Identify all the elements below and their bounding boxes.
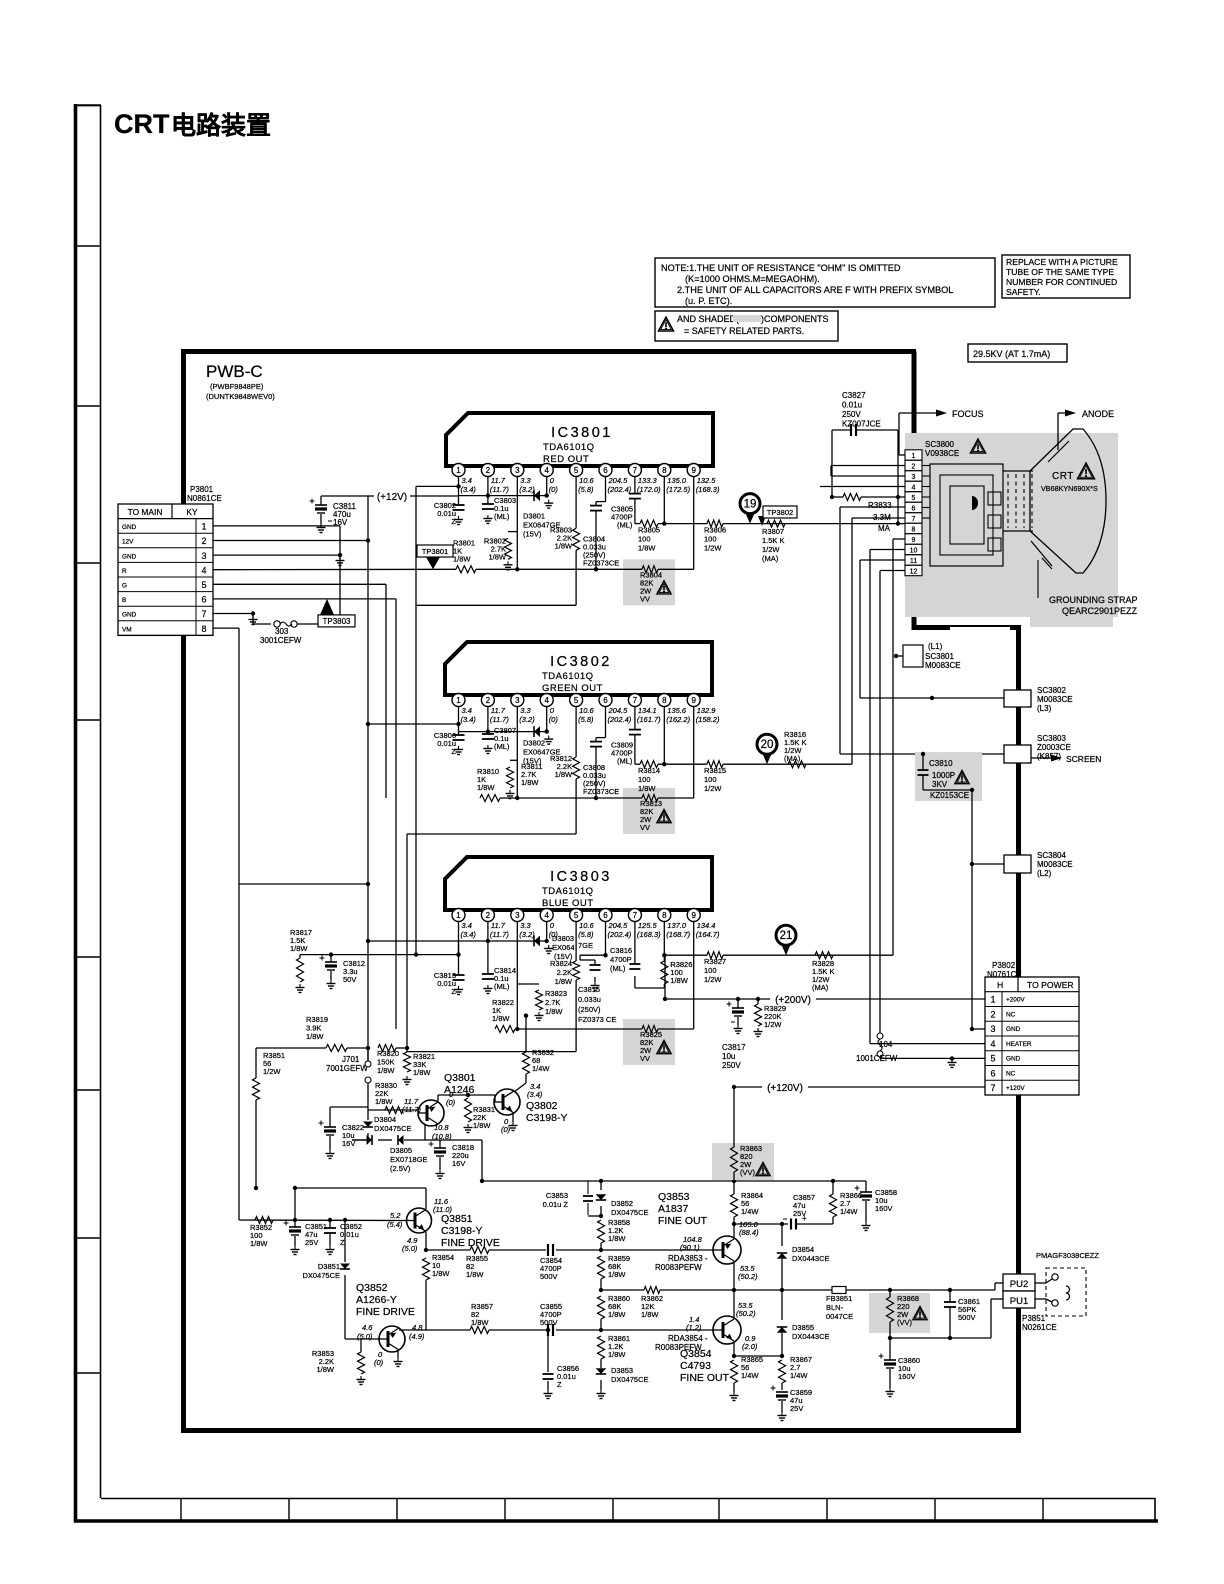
svg-text:(VV): (VV) xyxy=(740,1168,756,1177)
resistor R3860 68K xyxy=(598,1296,605,1319)
svg-text:MA: MA xyxy=(878,524,891,533)
capacitor C3810 1000P 3KV shaded xyxy=(915,752,982,801)
resistor R3859 68K xyxy=(598,1256,605,1279)
svg-text:(K=1000 OHMS.M=MEGAOHM).: (K=1000 OHMS.M=MEGAOHM). xyxy=(685,274,820,284)
svg-text:133.3: 133.3 xyxy=(638,476,658,485)
IC3802 pin 2 xyxy=(487,694,489,696)
svg-text:PWB-C: PWB-C xyxy=(206,362,263,381)
IC3803 pin 3 xyxy=(516,909,518,911)
resistor R3867 2.7 1/4W xyxy=(779,1360,786,1383)
jumper 303 3001CEFW xyxy=(252,614,254,625)
IC3802 pin 6 xyxy=(605,694,607,696)
svg-text:204.5: 204.5 xyxy=(608,921,629,930)
svg-text:NC: NC xyxy=(1006,1070,1016,1077)
red output wire to CRT xyxy=(723,523,905,525)
svg-text:1/8W: 1/8W xyxy=(377,1066,395,1075)
svg-text:4700P: 4700P xyxy=(610,955,632,964)
svg-text:NUMBER FOR CONTINUED: NUMBER FOR CONTINUED xyxy=(1006,277,1117,287)
svg-text:134.4: 134.4 xyxy=(697,921,716,930)
svg-text:11: 11 xyxy=(910,558,917,565)
CRT electron gun structure xyxy=(930,464,1003,566)
svg-text:PMAGF3038CEZZ: PMAGF3038CEZZ xyxy=(1036,1251,1099,1260)
svg-text:1/8W: 1/8W xyxy=(641,1310,659,1319)
capacitor C3861 56PK 500V xyxy=(949,1290,951,1302)
svg-text:4: 4 xyxy=(544,696,549,705)
svg-text:2: 2 xyxy=(486,696,491,705)
resistor R3865 56 1/4W xyxy=(731,1360,738,1383)
resistor R3861 1.2K xyxy=(598,1336,605,1359)
svg-text:7: 7 xyxy=(201,609,206,619)
svg-text:(202.4): (202.4) xyxy=(608,930,632,939)
transistor Q3852 A1266-Y FINE DRIVE xyxy=(379,1326,405,1352)
svg-text:GROUNDING STRAP: GROUNDING STRAP xyxy=(1049,595,1138,605)
svg-text:1/4W: 1/4W xyxy=(790,1371,808,1380)
svg-text:BLN-: BLN- xyxy=(826,1303,844,1312)
svg-text:4: 4 xyxy=(544,911,549,920)
resistor R3811 2.7K xyxy=(510,759,517,761)
transistor Q3851 C3198-Y FINE DRIVE xyxy=(407,1208,432,1233)
svg-text:(L3): (L3) xyxy=(1037,704,1052,713)
svg-text:IC3802: IC3802 xyxy=(550,654,612,670)
svg-text:11.7: 11.7 xyxy=(491,706,506,715)
test point flag TP3802 xyxy=(758,516,766,526)
+12V rail IC3802 xyxy=(459,731,547,733)
svg-text:2.7K: 2.7K xyxy=(545,998,560,1007)
svg-text:C3198-Y: C3198-Y xyxy=(526,1112,567,1124)
svg-text:(3.4): (3.4) xyxy=(461,930,477,939)
capacitor on pin7 IC3803 xyxy=(634,922,636,965)
svg-text:1/8W: 1/8W xyxy=(306,1032,324,1041)
svg-text:SC3803: SC3803 xyxy=(1037,734,1066,743)
29.5KV box xyxy=(968,344,1067,362)
feedback shade R3813 xyxy=(623,788,675,834)
svg-text:500V: 500V xyxy=(540,1318,558,1327)
svg-text:CRT: CRT xyxy=(114,109,170,139)
resistor R3863 820 2W shaded xyxy=(712,1143,774,1180)
svg-text:1/8W: 1/8W xyxy=(638,544,656,553)
capacitor C3805 4700P on pin7 xyxy=(634,477,636,494)
svg-text:Q3801: Q3801 xyxy=(444,1072,476,1084)
svg-text:P3802: P3802 xyxy=(992,961,1016,970)
svg-text:(88.4): (88.4) xyxy=(739,1228,759,1237)
svg-text:A1266-Y: A1266-Y xyxy=(356,1294,397,1306)
svg-text:TUBE OF THE SAME TYPE: TUBE OF THE SAME TYPE xyxy=(1006,267,1114,277)
svg-text:204.5: 204.5 xyxy=(608,476,629,485)
capacitor C3817 10u 250V xyxy=(737,999,739,1008)
svg-text:6: 6 xyxy=(201,595,206,605)
svg-text:R3806: R3806 xyxy=(704,526,726,535)
svg-text:100: 100 xyxy=(704,966,717,975)
svg-text:21: 21 xyxy=(780,930,793,942)
svg-text:(158.2): (158.2) xyxy=(696,715,720,724)
svg-text:RDA3853 -: RDA3853 - xyxy=(668,1254,708,1263)
svg-text:1/8W: 1/8W xyxy=(670,976,688,985)
svg-text:GND: GND xyxy=(1006,1026,1021,1033)
svg-text:D3804: D3804 xyxy=(374,1115,396,1124)
svg-text:1001CEFW: 1001CEFW xyxy=(856,1054,898,1063)
svg-text:V0938CE: V0938CE xyxy=(925,449,959,458)
resistor R3810 input xyxy=(480,795,500,802)
svg-text:IC3801: IC3801 xyxy=(551,425,613,441)
svg-text:0047CE: 0047CE xyxy=(826,1312,853,1321)
svg-text:(3.2): (3.2) xyxy=(519,930,535,939)
+200V rail xyxy=(665,998,985,1000)
IC3803 pin 4 xyxy=(546,909,548,911)
svg-text:3.3M: 3.3M xyxy=(873,513,891,522)
svg-text:(L2): (L2) xyxy=(1037,869,1052,878)
svg-text:(ML): (ML) xyxy=(617,757,633,766)
svg-text:GREEN OUT: GREEN OUT xyxy=(542,683,603,694)
diode D3853 DX0475CE xyxy=(596,1368,606,1374)
svg-text:1/8W: 1/8W xyxy=(608,1270,626,1279)
IC3803 pin 5 xyxy=(575,909,577,911)
loop wire pin5 IC3802 xyxy=(407,833,576,835)
svg-text:134.1: 134.1 xyxy=(638,706,657,715)
capacitor C3853 0.01u Z parallel xyxy=(587,1181,589,1193)
capacitor C3816 4700P on pin6 xyxy=(605,922,607,956)
svg-text:100: 100 xyxy=(638,775,651,784)
wire feed into IC3801 pin1 xyxy=(416,485,459,487)
test point TP3803 on B line xyxy=(320,599,334,615)
wire y1181 node row xyxy=(482,1180,866,1182)
svg-text:= SAFETY RELATED PARTS.: = SAFETY RELATED PARTS. xyxy=(684,326,804,336)
svg-text:FINE OUT: FINE OUT xyxy=(658,1215,708,1227)
svg-text:250V: 250V xyxy=(842,410,861,419)
svg-text:H: H xyxy=(997,980,1003,990)
test point TP3801 flag xyxy=(417,545,453,557)
resistor R3857 82 xyxy=(470,1327,489,1334)
svg-text:5: 5 xyxy=(201,580,206,590)
svg-text:RED OUT: RED OUT xyxy=(543,454,589,465)
svg-text:KZ0153CE: KZ0153CE xyxy=(930,791,969,800)
note box 2: replace picture tube xyxy=(1002,255,1130,298)
svg-text:2.2K: 2.2K xyxy=(557,968,572,977)
svg-text:2.THE UNIT OF ALL CAPACITORS A: 2.THE UNIT OF ALL CAPACITORS ARE F WITH … xyxy=(677,285,953,295)
svg-text:100: 100 xyxy=(704,535,717,544)
resistor R3866 2.7 1/4W xyxy=(832,1181,834,1194)
CRT shaded area xyxy=(905,433,1118,617)
svg-text:(2.5V): (2.5V) xyxy=(390,1164,411,1173)
svg-text:(161.7): (161.7) xyxy=(637,715,661,724)
grounding strap wire xyxy=(1037,560,1039,598)
capacitor C3852 0.01u Z xyxy=(328,1218,332,1222)
svg-text:+200V: +200V xyxy=(1006,997,1025,1004)
wire y1338 bottom xyxy=(890,1337,991,1339)
svg-text:VV: VV xyxy=(640,823,650,832)
svg-text:104: 104 xyxy=(879,1040,893,1049)
svg-text:N0861CE: N0861CE xyxy=(187,494,222,503)
svg-text:132.9: 132.9 xyxy=(697,706,717,715)
svg-text:SC3801: SC3801 xyxy=(925,652,954,661)
svg-text:3.4: 3.4 xyxy=(462,706,472,715)
svg-text:(168.3): (168.3) xyxy=(696,485,720,494)
svg-text:1/8W: 1/8W xyxy=(413,1068,431,1077)
svg-text:R3814: R3814 xyxy=(638,766,660,775)
capacitor C3860 10u 160V xyxy=(889,1338,891,1360)
svg-text:1/8W: 1/8W xyxy=(290,944,308,953)
connector PU1 xyxy=(1003,1291,1035,1308)
svg-text:10u: 10u xyxy=(722,1052,735,1061)
svg-text:FB3851: FB3851 xyxy=(826,1294,852,1303)
svg-text:电路装置: 电路装置 xyxy=(171,112,271,140)
svg-text:C3198-Y: C3198-Y xyxy=(441,1225,482,1237)
svg-text:1/2W: 1/2W xyxy=(762,545,780,554)
svg-text:204.5: 204.5 xyxy=(608,706,629,715)
svg-text:(+12V): (+12V) xyxy=(377,492,407,503)
ground at pin4 IC3801 xyxy=(548,500,550,504)
svg-text:3: 3 xyxy=(990,1024,995,1034)
svg-text:G: G xyxy=(122,583,127,590)
IC3803 pin 9 xyxy=(693,909,695,911)
svg-text:(ML): (ML) xyxy=(494,742,510,751)
IC3803 pin 1 xyxy=(458,909,460,911)
svg-text:100: 100 xyxy=(704,775,717,784)
svg-text:(172.5): (172.5) xyxy=(666,485,690,494)
svg-text:10.8: 10.8 xyxy=(434,1123,449,1132)
svg-text:1/8W: 1/8W xyxy=(492,1014,510,1023)
svg-text:(PWBF9848PE): (PWBF9848PE) xyxy=(210,382,264,391)
socket SC3801 L1 xyxy=(903,645,923,667)
svg-text:4.6: 4.6 xyxy=(362,1323,373,1332)
svg-text:C3810: C3810 xyxy=(929,759,953,768)
+12V label xyxy=(372,489,412,501)
riser x407 loop link xyxy=(406,834,408,1052)
svg-text:2: 2 xyxy=(486,911,491,920)
svg-text:(MA): (MA) xyxy=(762,554,779,563)
svg-text:1/2W: 1/2W xyxy=(704,975,722,984)
GND wire to P3802 pin3 xyxy=(972,1028,985,1030)
note box 3: shaded components legend xyxy=(655,311,838,341)
svg-text:VV: VV xyxy=(640,1054,650,1063)
svg-text:3.3: 3.3 xyxy=(520,476,531,485)
capacitor C3808 0.033u xyxy=(605,707,607,738)
svg-text:(3.4): (3.4) xyxy=(461,715,477,724)
resistor R3853 2.2K xyxy=(345,1338,379,1340)
svg-text:B: B xyxy=(122,597,126,604)
+12V rail IC3803 xyxy=(368,940,547,942)
svg-text:2: 2 xyxy=(912,463,916,470)
svg-text:EX0718GE: EX0718GE xyxy=(390,1155,428,1164)
svg-text:1/8W: 1/8W xyxy=(638,784,656,793)
svg-text:R0083PEFW: R0083PEFW xyxy=(655,1343,702,1352)
svg-text:C3816: C3816 xyxy=(610,946,632,955)
IC3802 pin 1 xyxy=(458,694,460,696)
svg-text:D3801: D3801 xyxy=(523,512,545,521)
IC3802 pin 9 xyxy=(693,694,695,696)
svg-text:TO POWER: TO POWER xyxy=(1027,980,1074,990)
svg-text:(1.2): (1.2) xyxy=(686,1323,702,1332)
svg-text:137.0: 137.0 xyxy=(667,921,687,930)
resistor R3803 2.2K xyxy=(575,477,577,529)
svg-text:BLUE OUT: BLUE OUT xyxy=(542,898,594,909)
svg-text:135.0: 135.0 xyxy=(667,476,687,485)
svg-text:D3853: D3853 xyxy=(611,1366,633,1375)
resistor R3816 1.5K xyxy=(788,761,806,768)
svg-text:(0): (0) xyxy=(549,715,559,724)
svg-text:160V: 160V xyxy=(898,1372,916,1381)
resistor R3820 150K xyxy=(378,1045,396,1052)
svg-text:1/4W: 1/4W xyxy=(741,1371,759,1380)
svg-text:0.01u: 0.01u xyxy=(842,401,862,410)
resistor R3831 22K xyxy=(465,1098,472,1122)
svg-text:TP3801: TP3801 xyxy=(422,547,449,556)
svg-text:(50.2): (50.2) xyxy=(738,1272,758,1281)
transistor Q3853 A1837 FINE OUT xyxy=(713,1236,741,1264)
svg-text:DX0443CE: DX0443CE xyxy=(792,1332,830,1341)
svg-text:8: 8 xyxy=(662,466,667,475)
resistor R3832 68 1/4W xyxy=(523,1052,530,1074)
svg-text:Q3802: Q3802 xyxy=(526,1100,558,1112)
svg-text:10: 10 xyxy=(910,547,918,554)
collector wire Q3801 to R3831 and Q3802 xyxy=(437,1095,439,1102)
IC3801 pin 2 xyxy=(487,464,489,467)
svg-text:16V: 16V xyxy=(452,1159,465,1168)
IC3803 pin 2 xyxy=(487,909,489,911)
resistor R3868 220 2W shaded xyxy=(869,1293,930,1333)
svg-text:TDA6101Q: TDA6101Q xyxy=(543,442,595,453)
socket to gun stubs xyxy=(922,465,930,467)
svg-text:(11.7): (11.7) xyxy=(490,485,510,494)
svg-text:(15V): (15V) xyxy=(523,530,542,539)
capacitor C3815 0.033u xyxy=(580,954,606,956)
svg-text:(3.2): (3.2) xyxy=(519,715,535,724)
svg-text:6: 6 xyxy=(603,911,608,920)
svg-text:TP3803: TP3803 xyxy=(322,617,351,626)
svg-text:4: 4 xyxy=(912,484,916,491)
op-amp/video-amp IC3802 box xyxy=(445,642,712,695)
svg-text:1/8W: 1/8W xyxy=(477,783,495,792)
heater wire pin10 to P3802 pin4 xyxy=(870,549,905,551)
svg-text:11.7: 11.7 xyxy=(491,476,506,485)
svg-text:19: 19 xyxy=(744,499,757,511)
svg-text:(ML): (ML) xyxy=(617,521,633,530)
transistor Q3802 C3198-Y xyxy=(494,1089,520,1115)
svg-text:R3815: R3815 xyxy=(704,766,726,775)
svg-text:(u. P. ETC).: (u. P. ETC). xyxy=(685,296,732,306)
feedback shade R3825 xyxy=(623,1019,675,1065)
Q3852 emitter ground xyxy=(397,1350,399,1358)
svg-text:303: 303 xyxy=(275,627,289,636)
resistor R3805 100 1/8W xyxy=(635,523,640,525)
svg-text:(172.0): (172.0) xyxy=(637,485,661,494)
resistor R3806 100 1/2W xyxy=(707,520,723,527)
svg-text:D3805: D3805 xyxy=(390,1146,412,1155)
svg-text:1: 1 xyxy=(456,466,461,475)
svg-text:)COMPONENTS: )COMPONENTS xyxy=(761,314,829,324)
svg-text:16V: 16V xyxy=(333,518,348,527)
svg-text:6: 6 xyxy=(603,466,608,475)
+12V rail IC3801 xyxy=(459,495,547,497)
svg-text:25V: 25V xyxy=(790,1404,803,1413)
svg-text:Z0003CE: Z0003CE xyxy=(1037,743,1071,752)
svg-text:(DUNTK9848WEV0): (DUNTK9848WEV0) xyxy=(206,392,275,401)
svg-text:1/2W: 1/2W xyxy=(263,1067,281,1076)
resistor R3823 2.7K xyxy=(517,983,539,985)
svg-text:12: 12 xyxy=(910,568,918,575)
connector PU2 xyxy=(1003,1274,1035,1291)
svg-text:7: 7 xyxy=(633,696,638,705)
svg-text:2: 2 xyxy=(990,1009,995,1019)
svg-text:50V: 50V xyxy=(343,975,356,984)
svg-text:TDA6101Q: TDA6101Q xyxy=(542,671,594,682)
svg-text:6: 6 xyxy=(603,696,608,705)
svg-text:7: 7 xyxy=(990,1083,995,1093)
svg-text:4: 4 xyxy=(990,1039,995,1049)
svg-text:GND: GND xyxy=(122,524,137,531)
svg-text:4: 4 xyxy=(201,565,206,575)
SC3802 socket box xyxy=(860,697,1004,699)
svg-text:P3851: P3851 xyxy=(1022,1314,1046,1323)
svg-text:(11.7): (11.7) xyxy=(490,930,510,939)
diode D3801 xyxy=(534,490,540,501)
svg-text:135.6: 135.6 xyxy=(667,706,687,715)
svg-text:(3.2): (3.2) xyxy=(519,485,535,494)
svg-text:25V: 25V xyxy=(793,1209,806,1218)
wire VM line into Q3851 base xyxy=(239,1219,406,1222)
svg-text:Z: Z xyxy=(557,1380,562,1389)
svg-text:(250V): (250V) xyxy=(578,1005,601,1014)
svg-text:125.5: 125.5 xyxy=(638,921,658,930)
left border ruler xyxy=(74,104,78,1522)
capacitor C3807 0.1u xyxy=(487,732,489,734)
ground at row3 node xyxy=(339,557,341,561)
svg-text:(0): (0) xyxy=(446,1098,456,1107)
svg-text:(ML): (ML) xyxy=(494,982,510,991)
capacitor C3802 0.01u xyxy=(458,486,460,495)
loop wire pin5 IC3801 xyxy=(416,604,576,606)
svg-text:D3855: D3855 xyxy=(792,1323,814,1332)
svg-text:8: 8 xyxy=(662,696,667,705)
note box 1: units xyxy=(655,258,995,307)
IC3801 pin 6 xyxy=(605,464,607,467)
svg-text:C3815: C3815 xyxy=(578,985,600,994)
capacitor C3804 0.033u xyxy=(605,477,607,502)
svg-text:5: 5 xyxy=(574,466,579,475)
svg-text:TO MAIN: TO MAIN xyxy=(128,507,163,517)
svg-text:M0083CE: M0083CE xyxy=(925,661,961,670)
svg-text:(5.4): (5.4) xyxy=(387,1220,403,1229)
svg-text:CRT: CRT xyxy=(1052,471,1074,482)
resistor R3821 33K xyxy=(404,1052,411,1072)
svg-text:1/8W: 1/8W xyxy=(555,541,573,550)
svg-text:9: 9 xyxy=(912,537,916,544)
resistor R3855 82 xyxy=(470,1247,489,1254)
svg-text:C3817: C3817 xyxy=(722,1043,746,1052)
svg-text:1/8W: 1/8W xyxy=(521,778,539,787)
svg-text:DX0475CE: DX0475CE xyxy=(302,1271,340,1280)
svg-text:R3823: R3823 xyxy=(545,989,567,998)
IC3802 pin 3 xyxy=(516,694,518,696)
svg-text:Z: Z xyxy=(340,1238,345,1247)
svg-text:Q3851: Q3851 xyxy=(441,1213,473,1225)
diode D3804 xyxy=(367,1110,369,1120)
capacitor C3856 0.01u Z xyxy=(547,1330,549,1372)
svg-text:1/8W: 1/8W xyxy=(471,1318,489,1327)
CRT neck tube xyxy=(1003,470,1033,472)
svg-text:KY: KY xyxy=(186,507,198,517)
svg-text:SC3800: SC3800 xyxy=(925,440,954,449)
svg-text:SC3804: SC3804 xyxy=(1037,851,1066,860)
capacitor C3851 47u 25V xyxy=(293,1218,297,1222)
svg-text:1/4W: 1/4W xyxy=(532,1064,550,1073)
svg-text:1: 1 xyxy=(456,696,461,705)
svg-text:(5.8): (5.8) xyxy=(578,930,594,939)
Q3801 emitter down xyxy=(424,1124,426,1140)
IC3801 pin 7 xyxy=(634,464,636,467)
svg-text:(168.7): (168.7) xyxy=(666,930,690,939)
svg-text:1/8W: 1/8W xyxy=(608,1310,626,1319)
Q3854 collector/emitter wires xyxy=(733,1290,735,1319)
